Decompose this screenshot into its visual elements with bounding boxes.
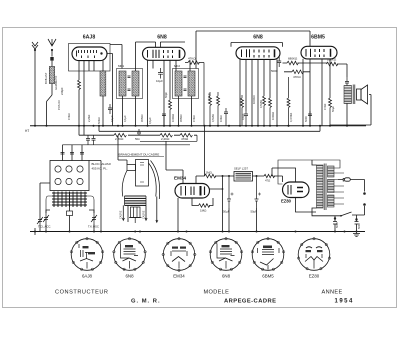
filter choke box (234, 172, 253, 182)
wire (136, 42, 143, 71)
wire (143, 42, 156, 47)
cadre body (122, 160, 159, 200)
texture labels vertical (54, 76, 335, 124)
resistor R 2,2K (114, 133, 126, 137)
tube U3 6N8 envelope (236, 47, 280, 60)
tube base B5 6BM5 (251, 238, 285, 271)
capacitor C mid (224, 108, 228, 126)
resistor R 1M under EM34 (199, 204, 210, 208)
svg-text:47KΩ: 47KΩ (67, 113, 71, 120)
svg-text:MF1: MF1 (118, 64, 124, 68)
vertical wires under U3 (240, 59, 277, 125)
wire speaker loop (330, 95, 371, 126)
coil pack side hooks (46, 196, 94, 213)
shield box around 6AJ8 (69, 44, 111, 72)
resistor R 100K horizontal right (327, 62, 338, 66)
tube U5 EM34 internals (181, 186, 205, 196)
svg-text:47KΩ: 47KΩ (293, 75, 301, 79)
tube U1 6AJ8 internals (77, 50, 103, 58)
resistor R vertical left b (217, 92, 220, 126)
MF1 trimmer caps (128, 76, 131, 91)
cadre connector strip (125, 196, 147, 205)
svg-text:10KΩ: 10KΩ (219, 115, 223, 122)
capacitor C sect b (355, 218, 359, 232)
svg-text:POS.OC: POS.OC (57, 100, 61, 110)
resistor R 1M horizontal above EM34 (205, 174, 216, 178)
wire EM34 bottom (192, 198, 213, 206)
svg-text:0,5MΩ: 0,5MΩ (259, 100, 263, 108)
tube U4 6BM5 envelope (301, 46, 337, 59)
svg-text:22KpF: 22KpF (60, 87, 64, 95)
resistor R 680K horizontal (287, 61, 298, 65)
svg-text:100KΩ: 100KΩ (271, 112, 275, 120)
main HT rail (30, 125, 366, 127)
IF transformer MF2 box (173, 69, 199, 99)
svg-text:6BM5: 6BM5 (311, 35, 325, 41)
trimmer cap left (37, 217, 43, 225)
lamp leads (338, 180, 365, 192)
cadre socket (129, 207, 142, 223)
trimmer T.C.ACC (43, 213, 49, 224)
wire (283, 62, 328, 64)
wire (160, 42, 185, 47)
svg-text:MF2: MF2 (174, 64, 180, 68)
svg-text:455KC: 455KC (179, 114, 183, 122)
speaker HP (357, 85, 368, 104)
resistor R vertical 0,47M (287, 77, 290, 126)
resistor R vertical under U3 c (269, 98, 272, 126)
svg-text:6N8: 6N8 (222, 274, 231, 279)
TR1 primary winding (317, 165, 324, 208)
capacitor C ant (50, 57, 53, 61)
resistor R horizontal between MF2 and U3 (185, 61, 204, 126)
wire fuse line (356, 215, 358, 218)
heater line (99, 130, 320, 132)
capacitor C under U4 (308, 111, 312, 126)
wire resistor line left end (78, 126, 80, 135)
svg-text:ARPEGE-CADRE: ARPEGE-CADRE (224, 299, 276, 305)
capacitor C on TR2 line (345, 77, 349, 86)
vertical wires under U2 (148, 60, 191, 126)
tube U6 EZ80 envelope (283, 182, 310, 198)
svg-text:CONSTRUCTEUR: CONSTRUCTEUR (55, 290, 109, 296)
electrolytic C 50uF b (255, 176, 259, 208)
svg-text:0,5MΩ: 0,5MΩ (211, 114, 215, 122)
resistor R 100 (160, 133, 172, 137)
svg-text:50pF: 50pF (164, 92, 168, 98)
antenna A1 (cadre) (32, 42, 38, 51)
wire antenna drop (51, 51, 53, 57)
svg-text:BLOC .ALVAR: BLOC .ALVAR (92, 162, 112, 166)
tube U3 6N8 internals (242, 49, 275, 57)
svg-text:ANNEE: ANNEE (322, 290, 343, 296)
svg-text:CADRE: CADRE (120, 210, 123, 219)
svg-text:1MΩ: 1MΩ (206, 171, 213, 175)
svg-text:6BM5: 6BM5 (262, 274, 274, 279)
resistor R 47 after choke (264, 174, 275, 177)
resistor R vertical under U2 (169, 99, 172, 126)
cadre leads (123, 197, 157, 223)
TR2 core (353, 85, 355, 105)
capacitor C under U2 (162, 114, 166, 126)
tube U2 6N8 internals (148, 50, 180, 58)
oscillator coil L2 (100, 71, 106, 96)
vertical wires under U1 (79, 61, 103, 136)
wire EM34 top (166, 141, 183, 183)
resistor R 470 (180, 133, 192, 137)
svg-text:5000: 5000 (304, 116, 308, 122)
vertical wires under U4 (303, 59, 330, 126)
wire top long (196, 31, 310, 69)
svg-text:100KΩ: 100KΩ (171, 114, 175, 122)
trimmer tick marks (61, 153, 85, 155)
switch SW1 (47, 95, 53, 126)
capacitor C under L2 (108, 104, 112, 114)
svg-text:2,2KΩ: 2,2KΩ (161, 137, 170, 141)
tube U6 EZ80 internals (288, 185, 303, 195)
resistor line (79, 134, 197, 136)
resistor R vertical under U3 a (241, 95, 244, 126)
resistor R vertical under U1 (78, 80, 81, 90)
lower line b (63, 144, 191, 146)
wire B+ to filter (204, 126, 206, 176)
resistor R 47K horizontal (292, 70, 303, 74)
svg-text:47KΩ: 47KΩ (192, 115, 196, 122)
bottom rail (30, 231, 365, 233)
MF1 coil a (119, 71, 126, 96)
tube base B6 EZ80 (297, 238, 330, 271)
svg-text:10µF: 10µF (156, 79, 163, 83)
svg-text:CADRE: CADRE (143, 210, 146, 219)
tube base B2 6N8 (113, 238, 147, 271)
svg-text:50n: 50n (135, 137, 140, 141)
wire from rail to cadre (118, 135, 127, 164)
electrolytic C 50uF a (227, 176, 231, 208)
svg-text:470Ω: 470Ω (323, 104, 327, 110)
bottom rail dots (34, 231, 358, 233)
wire (284, 71, 310, 73)
resistor R vertical under U4 (329, 98, 332, 126)
svg-text:EZ80: EZ80 (309, 274, 320, 279)
svg-text:6AJ8: 6AJ8 (83, 35, 96, 41)
tube U5 EM34 envelope (175, 184, 210, 199)
wires TR1 secondary to EZ80 (278, 160, 340, 184)
trimmer T.K.OSC (91, 213, 97, 224)
wire (228, 208, 230, 232)
wire L2 bottom (102, 96, 104, 126)
svg-text:EM34: EM34 (173, 274, 185, 279)
wire bloc left to ground (40, 183, 50, 232)
capacitor C 10uF near U2 (158, 68, 163, 79)
wire EM34 left down (177, 198, 179, 232)
wire (51, 61, 53, 67)
svg-text:6AJ8: 6AJ8 (82, 274, 93, 279)
svg-text:100KΩ: 100KΩ (252, 95, 256, 104)
svg-text:G. M. R.: G. M. R. (131, 299, 161, 305)
svg-text:BRANCHEMENT DU CADRE: BRANCHEMENT DU CADRE (119, 153, 160, 157)
svg-text:0,1µF: 0,1µF (148, 117, 152, 124)
svg-text:455 KC. PL.: 455 KC. PL. (92, 167, 108, 171)
tube base B1 6AJ8 (70, 238, 104, 271)
output transformer TR2 winding (344, 86, 352, 104)
tube base B4 6N8 (209, 238, 243, 271)
wire over U3 (231, 43, 283, 47)
resistor R vertical under U3 b (263, 96, 266, 126)
svg-text:5000: 5000 (357, 223, 361, 229)
wire (256, 208, 258, 232)
tube base B3 EM34 (162, 238, 196, 272)
wire MF2 coil bottoms to rail (179, 96, 192, 126)
capacitor C 5000 (277, 57, 281, 67)
capacitor C under U3 (244, 111, 248, 126)
trimmer wires (46, 210, 94, 232)
MF2 coil a (175, 71, 182, 96)
coil L ant (49, 67, 54, 84)
svg-text:100KΩ: 100KΩ (327, 58, 337, 62)
wire (196, 176, 234, 184)
svg-text:1954: 1954 (335, 299, 354, 305)
top distribution wires (110, 45, 122, 69)
svg-text:6N8: 6N8 (253, 35, 263, 41)
junction dots rail HT (34, 125, 348, 127)
wire filter box (253, 175, 283, 177)
svg-text:EM34: EM34 (174, 176, 186, 181)
capacitor C sect a (333, 216, 337, 232)
svg-text:EZ80: EZ80 (281, 199, 292, 204)
svg-text:680KΩ: 680KΩ (288, 57, 298, 61)
antenna A2 (48, 39, 56, 51)
wire tube plate right (107, 54, 113, 126)
cadre lead arrows (122, 218, 158, 223)
switch contact b (363, 203, 366, 206)
TR1 secondary windings (328, 166, 335, 177)
svg-text:5000: 5000 (335, 222, 339, 228)
svg-text:470Ω: 470Ω (181, 137, 189, 141)
wire EM34 anode drop (210, 176, 223, 232)
svg-text:50KΩ: 50KΩ (97, 117, 101, 124)
pilot lamp LP horizontal (343, 178, 350, 181)
svg-text:5000: 5000 (271, 69, 278, 73)
svg-text:MODELE: MODELE (204, 290, 230, 296)
IF transformer MF1 box (117, 69, 143, 99)
svg-text:HT: HT (25, 129, 29, 133)
svg-text:6N8: 6N8 (157, 35, 167, 41)
TR1 top leads (312, 160, 330, 216)
svg-text:6N8: 6N8 (125, 274, 134, 279)
tube U2 6N8 envelope (143, 47, 186, 60)
tube U4 6BM5 internals (306, 49, 331, 57)
block circles (55, 166, 83, 185)
switch arm S2 (330, 212, 352, 216)
tuning block BLOC ALVAR (50, 161, 89, 191)
wire left rail vertical (34, 51, 36, 126)
coil pack stem (69, 207, 71, 211)
ground sect (353, 232, 360, 237)
lower line a (140, 135, 197, 141)
MF2 trimmer caps (184, 76, 187, 91)
wire (337, 64, 347, 77)
small caps on trimmer leads (86, 135, 90, 145)
svg-text:GAMME PO: GAMME PO (54, 76, 58, 90)
svg-text:47KΩ: 47KΩ (188, 57, 196, 61)
coil pack under block (52, 192, 87, 208)
MF2 coil b (188, 71, 195, 96)
capacitor C 50n on resistor line (137, 129, 141, 135)
svg-text:0,47MΩ: 0,47MΩ (289, 113, 293, 122)
wire (51, 84, 53, 96)
tube U1 6AJ8 envelope (72, 47, 107, 61)
svg-text:455KC: 455KC (140, 114, 144, 122)
wire EZ80 bottom (296, 198, 317, 213)
wire EZ80 top left (272, 168, 296, 182)
svg-text:2,2KΩ: 2,2KΩ (87, 115, 91, 122)
MF1 coil b (132, 71, 139, 96)
svg-text:0,1µF: 0,1µF (110, 115, 114, 122)
svg-text:2,2KΩ: 2,2KΩ (115, 137, 124, 141)
svg-text:1MΩ: 1MΩ (200, 209, 207, 213)
wire (352, 206, 365, 215)
svg-text:47Ω: 47Ω (265, 179, 270, 183)
switch contact a (363, 192, 366, 195)
resistor R vertical left a (209, 92, 212, 126)
svg-text:0,1µF: 0,1µF (123, 115, 127, 122)
svg-text:SELF L257: SELF L257 (234, 167, 248, 171)
wire MF1 coil bottoms to rail (123, 96, 136, 126)
right of block vertical (89, 161, 101, 232)
ground tick (34, 228, 36, 235)
bloc alvar trimmer leads (63, 145, 83, 161)
svg-text:T.K.OSC: T.K.OSC (88, 225, 99, 229)
svg-text:BOB.ANT: BOB.ANT (44, 72, 48, 84)
power transformer TR1 core (324, 164, 326, 211)
